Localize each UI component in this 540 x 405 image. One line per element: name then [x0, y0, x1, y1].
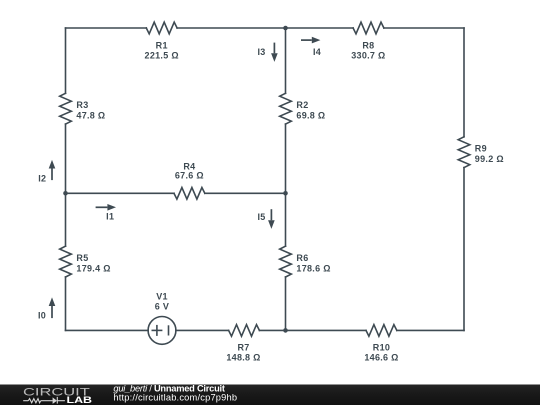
wire bottom node-to-R10 segment	[286, 329, 367, 331]
svg-text:R3: R3	[76, 100, 88, 110]
svg-text:178.6 Ω: 178.6 Ω	[296, 264, 330, 274]
svg-text:http://circuitlab.com/cp7p9hb: http://circuitlab.com/cp7p9hb	[113, 393, 237, 403]
current arrow I5	[270, 209, 272, 220]
resistor R7	[229, 325, 260, 337]
wire left upper segment	[65, 28, 67, 93]
wire middle-horizontal left segment	[66, 192, 175, 194]
resistor R9	[458, 137, 470, 168]
resistor R10	[366, 325, 397, 337]
resistor R5	[60, 246, 72, 277]
svg-text:146.6 Ω: 146.6 Ω	[364, 352, 398, 362]
svg-text:R5: R5	[76, 253, 88, 263]
wire bottom V1-to-R7 segment	[176, 329, 229, 331]
wire middle-vertical center segment	[285, 124, 287, 246]
svg-text:R6: R6	[296, 253, 308, 263]
svg-text:I1: I1	[106, 212, 114, 222]
voltage source V1	[148, 317, 176, 345]
wire middle-horizontal right segment	[205, 192, 286, 194]
svg-text:R8: R8	[362, 41, 374, 51]
svg-text:330.7 Ω: 330.7 Ω	[351, 51, 385, 61]
svg-text:R10: R10	[373, 342, 390, 352]
wire bottom-right segment	[397, 329, 464, 331]
svg-text:67.6 Ω: 67.6 Ω	[175, 170, 204, 180]
node middle junction	[283, 191, 288, 196]
wire right upper segment	[463, 28, 465, 137]
current arrow I1	[96, 206, 108, 208]
svg-text:V1: V1	[156, 291, 168, 301]
resistor R4	[174, 188, 205, 200]
current arrow I3	[273, 43, 275, 54]
node top junction	[283, 26, 288, 31]
wire left lower segment	[65, 277, 67, 330]
svg-text:148.8 Ω: 148.8 Ω	[226, 352, 260, 362]
wire middle-vertical lower segment	[285, 277, 287, 330]
svg-text:R7: R7	[237, 342, 249, 352]
wire right lower segment	[463, 168, 465, 331]
svg-text:R1: R1	[156, 41, 168, 51]
node middle-left junction	[63, 191, 68, 196]
wire bottom R7-to-node segment	[259, 329, 285, 331]
current arrow I0	[51, 306, 53, 318]
CircuitLab logo symbol (resistor + diode)	[23, 397, 65, 404]
svg-text:R9: R9	[475, 144, 487, 154]
wire top-middle segment	[177, 27, 353, 29]
current arrow I4	[301, 39, 312, 41]
svg-text:I3: I3	[257, 47, 265, 57]
svg-text:I4: I4	[313, 47, 321, 57]
resistor R1	[146, 22, 177, 34]
svg-text:47.8 Ω: 47.8 Ω	[76, 111, 105, 121]
svg-text:I2: I2	[38, 174, 46, 184]
resistor R3	[60, 93, 72, 124]
resistor R2	[280, 93, 292, 124]
current arrow I2	[51, 169, 53, 181]
svg-text:I0: I0	[38, 311, 46, 321]
svg-text:R2: R2	[296, 100, 308, 110]
wire middle-vertical upper segment	[285, 28, 287, 93]
svg-text:221.5 Ω: 221.5 Ω	[145, 51, 179, 61]
wire left middle segment	[65, 124, 67, 246]
svg-text:LAB: LAB	[67, 395, 93, 405]
wire top-right segment	[384, 27, 464, 29]
svg-text:I5: I5	[257, 212, 265, 222]
node bottom junction	[283, 328, 288, 333]
svg-text:6 V: 6 V	[155, 302, 169, 312]
svg-text:179.4 Ω: 179.4 Ω	[76, 264, 110, 274]
wire top-left segment	[66, 27, 147, 29]
wire bottom-left segment	[66, 329, 149, 331]
resistor R6	[280, 246, 292, 277]
resistor R8	[353, 22, 384, 34]
svg-text:99.2 Ω: 99.2 Ω	[475, 154, 504, 164]
svg-text:69.8 Ω: 69.8 Ω	[296, 111, 325, 121]
